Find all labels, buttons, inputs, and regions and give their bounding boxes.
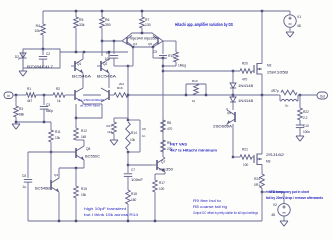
svg-text:Q5: Q5	[148, 42, 152, 46]
svg-text:C5: C5	[153, 50, 157, 54]
out terminal	[317, 92, 328, 99]
voltage source V2	[262, 192, 290, 221]
svg-text:but I think 15k across R14: but I think 15k across R14	[84, 213, 138, 217]
resistor R2	[53, 87, 65, 103]
resistor R21	[240, 148, 252, 168]
svg-text:R18: R18	[131, 192, 137, 196]
svg-text:Q7: Q7	[161, 160, 165, 164]
svg-text:1k: 1k	[57, 99, 61, 103]
parallel RC R14	[126, 120, 146, 152]
ground below V2	[280, 221, 288, 226]
resistor R7	[140, 11, 151, 33]
svg-text:C7: C7	[131, 168, 135, 172]
svg-text:1N4148: 1N4148	[238, 99, 253, 103]
svg-text:V1: V1	[297, 15, 301, 19]
svg-text:BZX84C4L7: BZX84C4L7	[27, 65, 53, 69]
diode D3	[230, 71, 253, 88]
svg-text:C6: C6	[142, 127, 146, 131]
labels octagon	[130, 37, 157, 47]
wire VAS column upper	[127, 66, 129, 120]
title note	[175, 22, 233, 27]
resistor R4	[35, 11, 46, 49]
svg-text:470: 470	[167, 127, 173, 131]
junction rail x142	[141, 10, 143, 12]
resistor R10	[163, 41, 186, 68]
svg-text:D2: D2	[15, 55, 19, 59]
wire R1 to R2	[36, 94, 53, 96]
wire collector node y41	[102, 40, 122, 42]
resistor R15	[74, 168, 87, 221]
svg-text:2.2: 2.2	[303, 116, 308, 120]
ground input	[12, 124, 20, 129]
svg-text:R2: R2	[56, 87, 60, 91]
capacitor C10	[296, 120, 311, 136]
svg-text:V2: V2	[273, 203, 277, 207]
junction bias line x76	[75, 51, 77, 53]
bias box wires	[23, 49, 60, 68]
svg-text:R16: R16	[117, 86, 123, 90]
junction octagon bottom right	[152, 46, 154, 48]
svg-text:Q6: Q6	[227, 111, 231, 115]
svg-text:R3: R3	[19, 107, 23, 111]
svg-text:R6: R6	[105, 18, 109, 22]
svg-text:R15: R15	[81, 187, 87, 191]
junction x155 rail	[154, 220, 156, 222]
resistor R11	[49, 122, 61, 152]
wire gate line M2	[163, 70, 240, 72]
wire bias line	[60, 51, 128, 53]
svg-text:130: 130	[145, 23, 151, 27]
junction network right	[299, 94, 301, 96]
note input pair	[78, 98, 105, 108]
svg-text:Output DC offset is pretty sta: Output DC offset is pretty stable for al…	[193, 211, 258, 215]
svg-text:BC546A: BC546A	[97, 75, 117, 79]
transistor Q5 glyph	[153, 36, 158, 46]
svg-text:100nF: 100nF	[131, 178, 143, 182]
wire bottom supply rail	[28, 220, 262, 222]
svg-text:C8: C8	[22, 174, 26, 178]
wire Q1 base	[71, 65, 75, 67]
svg-text:R17: R17	[159, 181, 165, 185]
octagon driver loop	[122, 33, 163, 47]
wire x163 mid	[162, 58, 164, 157]
junction RC bottom	[127, 151, 129, 153]
svg-text:R10: R10	[168, 54, 174, 58]
svg-text:R20: R20	[242, 62, 248, 66]
svg-text:100: 100	[243, 163, 249, 167]
svg-text:R5: R5	[79, 18, 83, 22]
svg-text:68k: 68k	[19, 113, 25, 117]
svg-text:33k: 33k	[79, 23, 85, 27]
svg-text:Q3: Q3	[54, 173, 58, 177]
svg-text:mje340 mje350: mje340 mje350	[130, 37, 157, 41]
wire R2 to base	[65, 94, 75, 96]
wire R21 to gate	[252, 156, 254, 158]
svg-text:0R1: 0R1	[254, 183, 260, 187]
svg-text:in: in	[7, 94, 10, 98]
wire output node line	[128, 94, 278, 96]
svg-text:2SJ162: 2SJ162	[266, 153, 284, 157]
wire RC to node	[127, 152, 129, 165]
svg-text:high 10pF transient: high 10pF transient	[84, 207, 126, 211]
junction loop bottom	[75, 117, 77, 119]
resistor R19 loop	[186, 79, 206, 103]
wire M2 drain	[261, 11, 263, 64]
resistor R16	[114, 82, 128, 97]
junction x233 y157	[232, 156, 234, 158]
in terminal	[4, 92, 13, 99]
junction loop right	[205, 94, 207, 96]
ground mid	[110, 140, 118, 145]
svg-text:mje350: mje350	[159, 168, 173, 172]
wire x51 to Q3	[50, 152, 52, 180]
wire to out	[298, 94, 317, 96]
svg-text:1Meg: 1Meg	[178, 64, 186, 68]
note bottom	[193, 199, 258, 215]
wire M2 source	[261, 74, 263, 95]
svg-text:1k: 1k	[192, 99, 196, 103]
wire gate line M3	[233, 156, 240, 158]
wire Q2 collector	[101, 41, 103, 56]
capacitor C7	[124, 165, 143, 190]
resistor R17	[153, 174, 165, 221]
junction x76 y168	[75, 167, 77, 169]
svg-text:+ NFB temporary put in short: + NFB temporary put in short	[266, 190, 310, 194]
wire gnd bus	[16, 121, 51, 123]
svg-text:R11: R11	[55, 130, 61, 134]
svg-text:13k: 13k	[55, 136, 61, 140]
mosfet M2 2SK1058	[254, 63, 288, 75]
svg-text:C2: C2	[46, 52, 50, 56]
svg-text:100n: 100n	[303, 130, 310, 134]
junction x163 y58	[162, 57, 164, 59]
capacitor C3	[40, 95, 54, 122]
junction Q2 collector top	[108, 51, 110, 53]
svg-text:M2: M2	[267, 64, 272, 68]
resistor R6	[100, 11, 111, 41]
svg-text:180: 180	[131, 198, 137, 202]
wire Q4 emitter elbow	[128, 65, 133, 67]
wire fb bus	[28, 151, 76, 153]
svg-text:fail by 20mV drop / remove aft: fail by 20mV drop / remove afterwards	[266, 196, 323, 200]
junction R3 bottom	[15, 121, 17, 123]
transistor Q4 glyph	[127, 36, 132, 46]
label BZX84C4L7	[27, 65, 53, 69]
junction loop left	[185, 94, 187, 96]
junction Q3 emitter rail	[58, 220, 60, 222]
junction x128 y95	[127, 94, 129, 96]
svg-text:100: 100	[159, 187, 165, 191]
ground below V1	[286, 32, 294, 37]
capacitor C5	[153, 41, 167, 58]
svg-text:Q4: Q4	[133, 42, 137, 46]
resistor R8	[161, 120, 173, 132]
wire Q4 emitter drop	[132, 47, 134, 66]
junction x102 y41	[101, 40, 103, 42]
svg-text:M3: M3	[266, 160, 271, 164]
svg-text:C3: C3	[46, 103, 50, 107]
wire fb to R16	[109, 94, 114, 96]
svg-text:2u: 2u	[285, 104, 289, 108]
svg-text:10k: 10k	[35, 29, 41, 33]
junction x128 rail	[127, 220, 129, 222]
junction rail x262	[261, 10, 263, 12]
junction RC top	[127, 119, 129, 121]
capacitor C8	[22, 174, 32, 221]
note FET VAS	[170, 143, 217, 153]
svg-text:4k7: 4k7	[27, 99, 32, 103]
svg-text:Out: Out	[320, 94, 325, 98]
ground below bias box	[19, 68, 27, 76]
resistor R20	[240, 62, 252, 82]
junction x163 y66	[162, 65, 164, 67]
transistor Q6	[213, 102, 235, 129]
junction input node	[15, 94, 17, 96]
diode D4	[230, 95, 253, 103]
transistor Q8	[76, 140, 101, 168]
svg-text:R7: R7	[145, 18, 149, 22]
svg-text:1k4: 1k4	[107, 130, 112, 134]
svg-text:680p: 680p	[46, 109, 53, 113]
wire D3 to node	[232, 88, 234, 95]
resistor R22	[298, 95, 309, 120]
svg-text:2x 2SK209GR: 2x 2SK209GR	[78, 98, 105, 102]
capacitor C2	[39, 49, 51, 68]
resistor R1	[26, 87, 36, 103]
svg-text:48: 48	[297, 24, 301, 28]
resistor R18	[126, 190, 137, 221]
wire in to R1	[13, 94, 26, 96]
transistor Q3	[35, 168, 59, 221]
svg-text:BC546A: BC546A	[72, 75, 92, 79]
wire Q8 emitter bus	[59, 167, 84, 169]
wire to VAS base	[128, 164, 152, 166]
emitter loop	[76, 102, 102, 118]
resistor R17b	[106, 118, 128, 140]
junction octagon top	[141, 32, 143, 34]
resistor R9	[161, 140, 173, 152]
wire M3 source	[261, 95, 263, 154]
svg-text:FET VAS: FET VAS	[170, 143, 188, 147]
svg-text:15k: 15k	[81, 193, 87, 197]
svg-text:1n: 1n	[142, 134, 146, 138]
svg-text:2SD669A: 2SD669A	[213, 125, 233, 129]
junction octagon bottom left	[132, 46, 134, 48]
svg-text:4k7 is Hitachi minimum: 4k7 is Hitachi minimum	[170, 149, 217, 153]
wire top supply rail	[43, 10, 290, 12]
note NFB	[266, 190, 323, 200]
wire x28 upper	[27, 152, 29, 178]
ground below zobel	[296, 136, 304, 141]
svg-text:R8 coarse tail rig: R8 coarse tail rig	[193, 205, 227, 209]
resistor R3	[14, 95, 25, 122]
svg-text:R24: R24	[254, 177, 260, 181]
svg-text:C10: C10	[303, 124, 309, 128]
note transient	[84, 207, 138, 217]
svg-text:R9 fine but to: R9 fine but to	[193, 199, 221, 203]
svg-text:R21: R21	[242, 148, 248, 152]
svg-text:470: 470	[242, 78, 248, 82]
svg-text:48: 48	[271, 213, 275, 217]
svg-text:BC546B: BC546B	[35, 187, 50, 191]
svg-text:4R7p: 4R7p	[271, 89, 279, 93]
junction C4 to VAS line	[127, 65, 129, 67]
wire M3 drain	[261, 165, 263, 175]
svg-text:1N4148: 1N4148	[238, 84, 253, 88]
svg-text:R1: R1	[27, 87, 31, 91]
junction C3 bottom	[43, 121, 45, 123]
junction output node	[261, 94, 263, 96]
junction NFB node	[261, 191, 263, 193]
resistor R5	[74, 11, 85, 52]
junction rail x102	[101, 10, 103, 12]
resistor R24	[254, 174, 264, 192]
resistor R12	[74, 118, 87, 140]
junction x76 rail	[75, 220, 77, 222]
junction x114 y41	[113, 40, 115, 42]
transistor Q2	[97, 52, 117, 88]
transistor Q1b glyph	[75, 88, 83, 102]
transistor Q7 VAS	[152, 157, 173, 174]
wire Q5 emitter drop	[152, 47, 154, 58]
transistor Q2b glyph	[101, 88, 109, 102]
svg-text:R8: R8	[167, 121, 171, 125]
junction Q1 collector	[83, 51, 85, 53]
svg-text:Q8: Q8	[86, 147, 90, 151]
junction rail x76	[75, 10, 77, 12]
svg-text:Hitachi app. amplifier variati: Hitachi app. amplifier variation by DS	[175, 22, 233, 27]
junction VAS base node	[127, 164, 129, 166]
wire Q2 base	[97, 65, 101, 67]
svg-text:10k: 10k	[130, 138, 136, 142]
junction bias box top	[42, 48, 44, 50]
transistor Q1	[72, 52, 92, 88]
zener D2	[15, 51, 27, 66]
junction x233 y95	[232, 94, 234, 96]
svg-text:R12: R12	[81, 129, 87, 133]
junction x233 y71	[232, 70, 234, 72]
wire Q6 down	[232, 124, 234, 157]
svg-text:Q2: Q2	[103, 62, 107, 66]
inductor R23 L2 parallel	[271, 89, 298, 108]
junction C3 top	[43, 94, 45, 96]
wire Q5 emitter elbow	[153, 57, 163, 59]
capacitor C4	[105, 41, 128, 66]
svg-text:390: 390	[105, 23, 111, 27]
svg-text:R19: R19	[192, 79, 198, 83]
svg-text:2k4: 2k4	[119, 82, 124, 86]
junction x51 y152	[50, 151, 52, 153]
svg-text:1k5: 1k5	[81, 135, 86, 139]
wire base link	[83, 94, 101, 96]
svg-text:R22: R22	[303, 110, 309, 114]
wire R20 to gate	[252, 70, 254, 72]
svg-text:R14: R14	[131, 131, 137, 135]
mosfet M3 2SJ162	[254, 153, 284, 165]
svg-text:1u: 1u	[22, 185, 26, 189]
svg-text:Q1: Q1	[77, 62, 81, 66]
svg-text:R17: R17	[106, 124, 112, 128]
voltage source V1	[284, 11, 301, 31]
svg-text:2SK1058: 2SK1058	[267, 71, 288, 75]
wire to bottom rail	[261, 192, 263, 221]
junction x163 y71	[162, 70, 164, 72]
svg-text:R4: R4	[36, 24, 40, 28]
svg-text:BC550C: BC550C	[85, 155, 101, 159]
